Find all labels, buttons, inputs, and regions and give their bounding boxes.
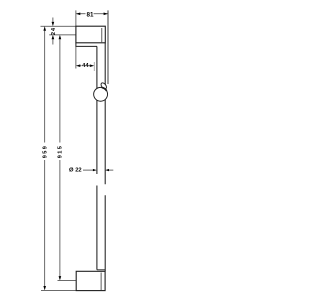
dimension 959 bottom extension line — [41, 289, 76, 291]
bottom wall bracket inner line — [100, 273, 102, 291]
diameter 22 right tail — [109, 169, 113, 171]
diameter 22 leader line — [83, 169, 93, 171]
svg-text:959: 959 — [42, 145, 48, 159]
dimension 959 top extension line — [41, 25, 76, 27]
svg-text:Ø: Ø — [69, 168, 74, 174]
svg-text:22: 22 — [75, 168, 81, 174]
top wall bracket box — [76, 26, 105, 43]
dimension 959 top arrowhead — [43, 26, 46, 30]
dimension 959 dim line lower segment — [44, 160, 46, 286]
svg-text:24: 24 — [51, 27, 57, 35]
wall bar rod right edge — [104, 43, 106, 271]
dimension 81 left arrowhead — [76, 13, 80, 16]
svg-text:915: 915 — [58, 145, 64, 159]
slider knob — [100, 82, 108, 90]
dimension 81 left extension line — [75, 10, 77, 26]
rod end cap above bottom bracket — [97, 269, 105, 271]
slider clamp notch inside circle — [102, 88, 107, 91]
dimension 24 lower extension line — [49, 34, 75, 36]
top wall bracket inner line — [101, 28, 103, 42]
dimension 915 top arrowhead — [59, 35, 62, 39]
dimension 959 bottom arrowhead — [43, 286, 46, 290]
dimension 915 dim line upper segment — [59, 39, 61, 143]
wall bar rod left edge — [96, 46, 98, 269]
dimension 915 bottom arrowhead — [59, 276, 62, 280]
svg-text:44: 44 — [82, 63, 89, 69]
dimension 24 lower arrowhead and stub — [52, 35, 55, 39]
svg-text:81: 81 — [86, 12, 94, 19]
dimension 915 dim line lower segment — [59, 160, 61, 277]
dimension 24 upper stub and arrowhead — [52, 18, 54, 23]
diameter 22 left arrowhead — [93, 169, 97, 171]
dimension 44 left arrowhead — [76, 64, 80, 67]
diameter 22 right arrowhead — [105, 169, 109, 171]
dimension 44 right arrowhead — [90, 64, 94, 67]
dimension 81 dim line — [76, 13, 107, 15]
dimension 44 right extension line — [93, 62, 95, 71]
top wall bracket lower slab — [76, 43, 97, 47]
dimension 44 left extension line (bracket edge extended) — [75, 46, 77, 68]
dimension 915 bottom extension line — [58, 280, 76, 282]
dimension 959 dim line upper segment — [44, 31, 46, 143]
dimension 81 right extension line (wall line) — [107, 10, 109, 84]
bottom wall bracket box — [76, 271, 105, 290]
slider body circle — [94, 87, 108, 101]
dimension 81 right arrowhead — [104, 13, 108, 16]
